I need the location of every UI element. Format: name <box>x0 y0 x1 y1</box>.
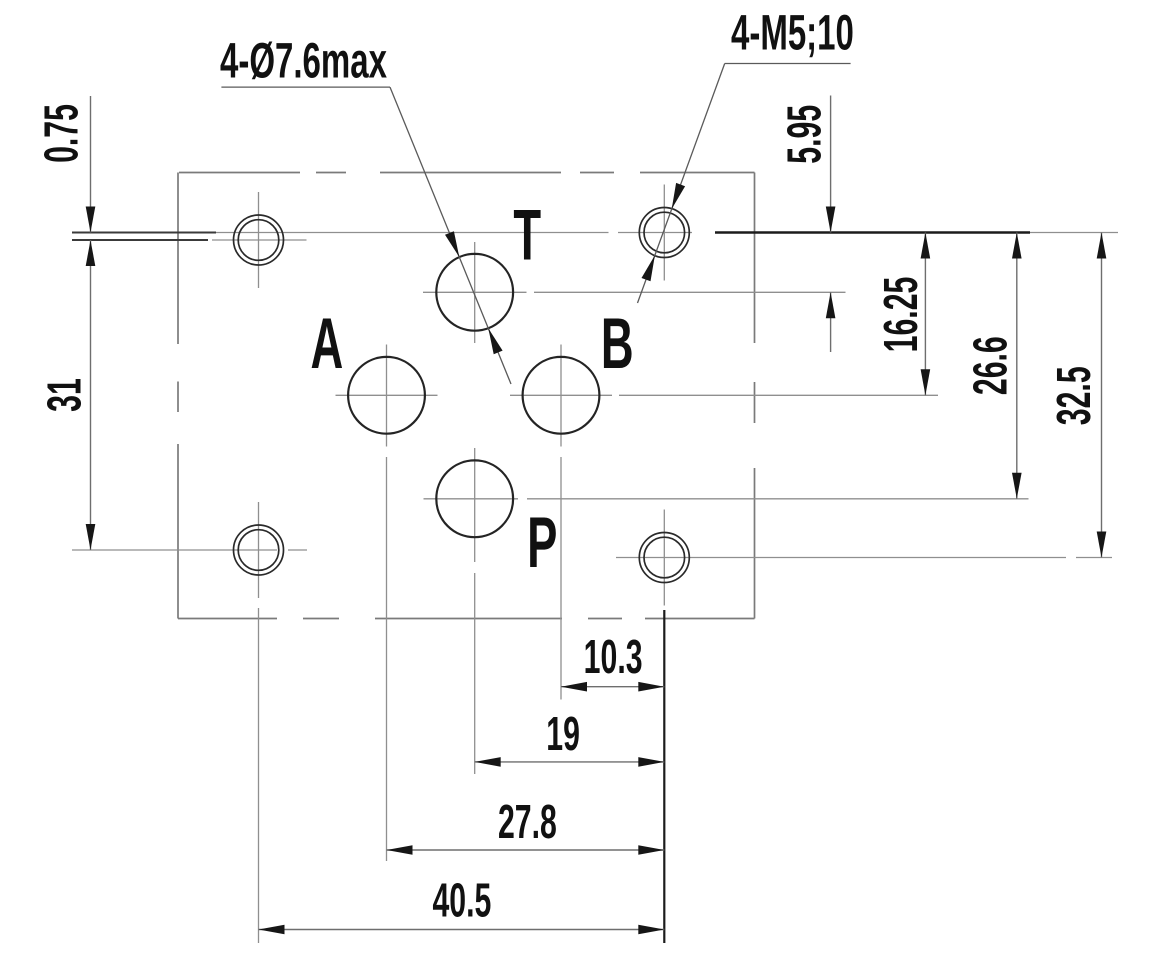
svg-text:19: 19 <box>546 708 580 761</box>
svg-text:32.5: 32.5 <box>1048 366 1101 425</box>
svg-text:P: P <box>527 503 557 583</box>
svg-text:5.95: 5.95 <box>779 105 832 164</box>
svg-text:4-Ø7.6max: 4-Ø7.6max <box>220 33 387 89</box>
svg-text:40.5: 40.5 <box>432 875 491 928</box>
svg-text:16.25: 16.25 <box>875 277 928 353</box>
svg-text:B: B <box>601 304 634 384</box>
svg-text:0.75: 0.75 <box>36 104 89 163</box>
svg-text:31: 31 <box>39 378 92 412</box>
svg-text:T: T <box>513 195 541 275</box>
svg-text:27.8: 27.8 <box>498 796 557 849</box>
svg-text:4-M5;10: 4-M5;10 <box>731 5 854 61</box>
svg-text:10.3: 10.3 <box>584 631 643 684</box>
svg-text:26.6: 26.6 <box>965 336 1018 395</box>
svg-text:A: A <box>311 304 344 384</box>
